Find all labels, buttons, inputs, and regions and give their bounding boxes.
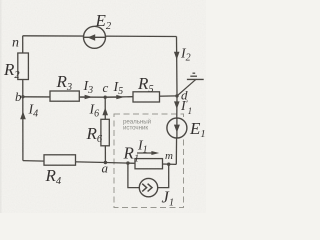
resistor R5 [133, 74, 160, 102]
resistor R4 [44, 155, 76, 187]
node b [15, 89, 25, 104]
resistor R1 [123, 144, 163, 169]
current arrow I2 (down, right branch top) [174, 47, 191, 64]
resistor R6 [86, 119, 110, 146]
scan grain overlay [0, 0, 206, 213]
wire: bottom (left corner through a to R1 and m) [23, 161, 176, 165]
EMF source E1 (circle with down arrow) [167, 118, 206, 140]
current arrow I1 (right, above R1) [137, 139, 159, 156]
current source J1 (circle with double chevron) [139, 178, 174, 208]
resistor R3 [50, 72, 79, 101]
current arrow I6 (up, below node c) [89, 103, 109, 120]
current arrow I1' (down, above E1) [174, 99, 192, 116]
wire: c to a vertical through R6 [104, 97, 106, 162]
wire: middle horizontal b-c-d [23, 96, 177, 97]
node c [103, 80, 109, 99]
node n label [12, 36, 19, 51]
node d [175, 88, 188, 103]
wire: J1 parallel loop (left drop, bottom, right rise to m) [128, 163, 169, 188]
wire: left vertical (n to bottom-left corner) [22, 36, 24, 161]
wire: top (n corner to top-right corner) [23, 35, 177, 38]
node m [165, 150, 173, 166]
wire: right vertical (top-right corner through d, E1 to m corner) [175, 37, 178, 165]
paper background [0, 0, 206, 213]
current arrow I5 (right, after node c) [107, 80, 124, 99]
current arrow I4 (up, left branch) [20, 103, 38, 120]
resistor R2 [3, 53, 28, 81]
ground symbol at node d [178, 73, 204, 95]
EMF source E2 (circle with left arrow) [84, 11, 112, 48]
junction node at R1 left / J1 loop [126, 161, 129, 164]
node a [102, 161, 109, 176]
dashed box: real source (реальный источник) [114, 114, 184, 208]
current arrow I3 (right, before node c) [81, 79, 94, 99]
